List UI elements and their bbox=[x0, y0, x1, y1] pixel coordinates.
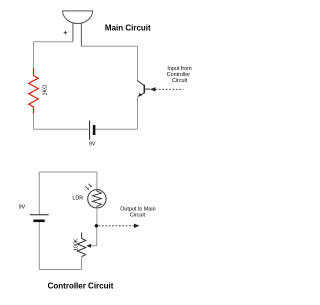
wire controller left vertical upper bbox=[38, 172, 40, 215]
lamp LP1 bbox=[63, 11, 93, 46]
wire below resistor bbox=[33, 114, 35, 130]
svg-text:1KΩ: 1KΩ bbox=[43, 85, 49, 96]
wire bottom-right segment bbox=[95, 128, 137, 130]
svg-text:LDR: LDR bbox=[72, 196, 83, 202]
svg-text:Main Circuit: Main Circuit bbox=[105, 24, 151, 33]
svg-text:9V: 9V bbox=[89, 142, 96, 148]
wire right vertical lower bbox=[137, 97, 139, 130]
output arrow bbox=[99, 224, 140, 228]
svg-text:100K: 100K bbox=[73, 238, 79, 251]
wire controller left vertical lower bbox=[38, 222, 40, 270]
svg-text:Controller Circuit: Controller Circuit bbox=[48, 281, 114, 290]
LDR R3 bbox=[85, 184, 106, 208]
wire controller right vertical to LDR bbox=[96, 172, 98, 190]
input arrow bbox=[150, 87, 184, 91]
label Input from Controller Circuit bbox=[167, 66, 192, 84]
battery B2 bbox=[30, 215, 49, 222]
wire left vertical bbox=[33, 42, 35, 68]
resistor R1 bbox=[29, 68, 39, 114]
wire junction down to wiper bbox=[90, 228, 97, 246]
wiper arrow bbox=[86, 244, 91, 248]
wire bottom-left segment bbox=[34, 128, 89, 130]
wire controller top horizontal bbox=[39, 171, 97, 173]
potentiometer R2 bbox=[77, 233, 85, 257]
battery B1 bbox=[90, 121, 96, 140]
wire controller bottom horizontal bbox=[39, 269, 81, 271]
label Output to Main Circuit bbox=[120, 206, 155, 218]
plus sign bbox=[64, 31, 68, 35]
wire pot bottom to bottom wire bbox=[81, 257, 83, 270]
wire LDR to junction bbox=[96, 208, 98, 226]
junction node bbox=[95, 224, 98, 227]
wire top-right horizontal bbox=[81, 45, 137, 47]
svg-text:Circuit: Circuit bbox=[172, 78, 188, 84]
svg-text:9V: 9V bbox=[19, 205, 26, 211]
wire top-left horizontal bbox=[34, 41, 73, 43]
svg-text:Circuit: Circuit bbox=[130, 212, 146, 218]
wire right vertical upper bbox=[137, 46, 139, 80]
transistor Q1 bbox=[137, 81, 150, 97]
